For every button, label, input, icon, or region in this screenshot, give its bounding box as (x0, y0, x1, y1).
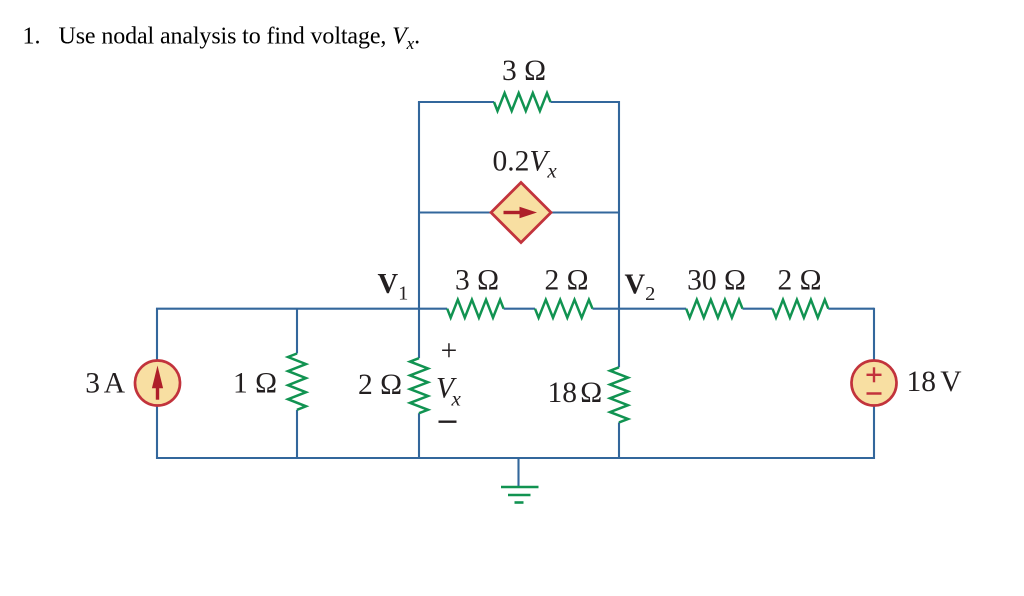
resistor 18 ohm vertical (610, 367, 628, 422)
wire left branch (current source) (156, 308, 158, 459)
resistor R top 3 ohm (494, 93, 551, 111)
svg-text:3 Ω: 3 Ω (502, 55, 546, 87)
svg-text:2 Ω: 2 Ω (777, 265, 821, 297)
svg-text:1.: 1. (23, 24, 41, 50)
wire main rail segment A (left end to 3ohm) (156, 308, 447, 310)
voltage source 18V circle (852, 361, 897, 406)
wire main rail segment E (2ohm to right corner) (828, 308, 874, 310)
wire main rail segment B (3ohm to 2ohm) (504, 308, 535, 310)
resistor 30 ohm (686, 300, 742, 318)
wire ground stub (517, 458, 519, 487)
wire 1ohm branch lower stub (296, 410, 298, 459)
svg-text:2 Ω: 2 Ω (358, 369, 402, 401)
svg-text:30 Ω: 30 Ω (687, 265, 746, 297)
wire top rail right segment (551, 101, 621, 103)
current source arrow (152, 366, 163, 400)
wire 2ohm Vx branch lower stub (418, 413, 420, 459)
svg-text:V1: V1 (378, 269, 409, 305)
resistor 2 ohm right (773, 300, 829, 318)
svg-text:3 Ω: 3 Ω (455, 265, 499, 297)
svg-text:Vx: Vx (436, 373, 462, 411)
svg-text:0.2Vx: 0.2Vx (493, 145, 558, 182)
svg-text:18V: 18V (907, 366, 962, 398)
voltage source plus sign (867, 367, 882, 382)
dependent source arrow (504, 207, 538, 218)
wire middle branch right of dependent source (550, 211, 619, 213)
dependent current source 0.2Vx diamond (491, 183, 551, 243)
resistor 2 ohm vertical (Vx) (410, 358, 428, 413)
wire middle branch left of dependent source (419, 211, 492, 213)
svg-text:3A: 3A (85, 367, 125, 399)
resistor 2 ohm mid rail (535, 300, 593, 318)
resistor 1 ohm vertical (288, 354, 306, 410)
wire right branch (voltage source) (873, 308, 875, 459)
wire main rail segment D (30ohm to 2ohm) (743, 308, 773, 310)
wire top loop right vertical (V2 up) (618, 101, 620, 309)
svg-text:2 Ω: 2 Ω (544, 265, 588, 297)
wire 2ohm Vx branch upper stub (418, 309, 420, 358)
svg-text:V2: V2 (625, 270, 656, 306)
wire 18ohm branch lower stub (618, 422, 620, 459)
svg-text:+: + (441, 335, 458, 367)
svg-text:1 Ω: 1 Ω (233, 367, 277, 399)
polarity minus for Vx (439, 421, 457, 423)
wire main rail segment C (2ohm to 30ohm) (593, 308, 687, 310)
voltage source minus sign (867, 392, 882, 395)
wire 1ohm branch upper stub (296, 308, 298, 354)
wire 18ohm branch upper stub (618, 309, 620, 367)
current source I1 3A circle (135, 361, 180, 406)
wire top rail left segment (419, 102, 494, 103)
wire bottom rail (156, 457, 875, 459)
resistor 3 ohm mid rail (447, 300, 503, 318)
wire top loop left vertical (V1 up) (418, 102, 420, 309)
ground (501, 487, 539, 503)
svg-text:Use nodal analysis to find vol: Use nodal analysis to find voltage, Vx. (59, 24, 421, 54)
svg-text:18Ω: 18Ω (548, 377, 603, 409)
